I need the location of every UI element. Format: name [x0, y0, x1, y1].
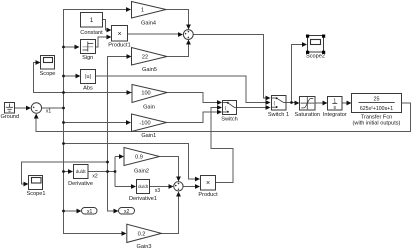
svg-text:Gain: Gain [143, 104, 155, 110]
svg-text:Gain4: Gain4 [141, 21, 156, 27]
svg-text:x2: x2 [124, 209, 130, 215]
svg-text:x2: x2 [92, 173, 98, 179]
svg-text:Derivative: Derivative [68, 181, 93, 187]
svg-text:x1: x1 [87, 209, 93, 215]
svg-text:x1: x1 [46, 108, 52, 114]
svg-text:Scope1: Scope1 [27, 191, 46, 197]
svg-text:Constant: Constant [80, 30, 103, 36]
svg-text:du/dt: du/dt [138, 184, 149, 189]
svg-text:Saturation: Saturation [295, 112, 321, 118]
svg-text:Abs: Abs [83, 85, 93, 91]
svg-text:Integrator: Integrator [323, 112, 347, 118]
svg-text:Gain5: Gain5 [142, 67, 157, 73]
svg-text:Switch 1: Switch 1 [268, 112, 289, 118]
svg-text:Switch: Switch [221, 117, 237, 123]
svg-text:Transfer Fcn: Transfer Fcn [361, 115, 393, 121]
svg-text:Product1: Product1 [108, 43, 130, 49]
svg-text:Ground: Ground [0, 114, 19, 120]
svg-text:Sign: Sign [82, 55, 93, 61]
svg-text:Product: Product [198, 192, 218, 198]
svg-text:×: × [117, 31, 121, 38]
svg-text:|u|: |u| [85, 74, 91, 80]
svg-text:Scope2: Scope2 [306, 54, 325, 60]
svg-text:-100: -100 [139, 121, 150, 127]
svg-text:22: 22 [142, 55, 148, 61]
svg-text:1: 1 [141, 8, 144, 14]
svg-text:Gain2: Gain2 [134, 168, 149, 174]
svg-text:Gain3: Gain3 [137, 244, 152, 249]
svg-text:0.9: 0.9 [135, 155, 143, 161]
svg-text:Scope: Scope [40, 71, 56, 77]
svg-text:×: × [206, 180, 210, 187]
svg-text:x3: x3 [155, 188, 161, 194]
svg-text:25: 25 [374, 96, 380, 102]
svg-text:625s²+100s+1: 625s²+100s+1 [360, 106, 393, 112]
svg-text:du/dt: du/dt [76, 169, 87, 174]
svg-text:Gain1: Gain1 [141, 133, 156, 139]
svg-text:(with initial outputs): (with initial outputs) [353, 121, 401, 127]
svg-text:Derivative1: Derivative1 [129, 196, 157, 202]
svg-text:100: 100 [141, 91, 150, 97]
svg-text:0.2: 0.2 [138, 232, 146, 238]
